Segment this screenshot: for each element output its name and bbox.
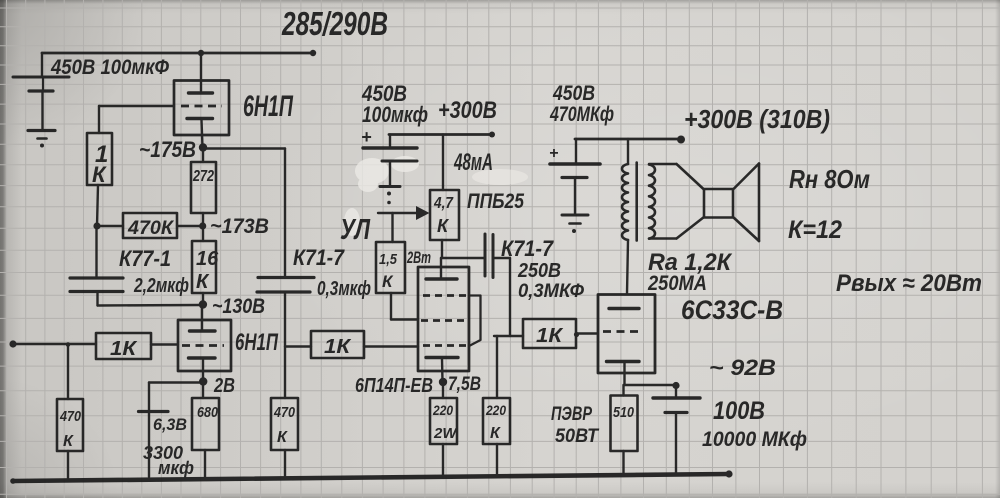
svg-text:2Вт: 2Вт	[406, 248, 431, 267]
node 285/290V supply label	[281, 5, 388, 42]
svg-text:К=12: К=12	[788, 216, 842, 244]
ground under second cap	[380, 187, 400, 205]
svg-text:0,3мкф: 0,3мкф	[317, 278, 371, 300]
resistor 220K grid leak	[483, 336, 510, 476]
wire rail to pot	[442, 135, 444, 191]
wire 470K to rail	[67, 451, 69, 479]
wire +300V rail 3	[575, 136, 685, 144]
wire ground bus	[10, 470, 732, 483]
capacitor K77-1 2.2uF	[70, 226, 201, 306]
svg-text:+300В (310В): +300В (310В)	[684, 104, 830, 134]
whiteout patches	[344, 156, 528, 236]
svg-text:450В 100мкФ: 450В 100мкФ	[50, 56, 169, 79]
wire 175V to coupling cap	[203, 149, 285, 278]
wire input	[9, 340, 96, 347]
svg-text:470: 470	[59, 408, 81, 425]
resistor 680	[192, 382, 219, 478]
svg-text:272: 272	[192, 168, 214, 185]
wire +300V rail 2	[389, 132, 495, 138]
wire 130V to V2 plate	[201, 305, 203, 331]
resistor 1.5K 2W	[376, 242, 431, 293]
resistor 510 PEVR 50W	[611, 385, 638, 473]
triode V1 6N1P (upper half)	[174, 81, 229, 136]
svg-text:50ВТ: 50ВТ	[555, 426, 599, 447]
resistor 1K input	[96, 333, 151, 360]
svg-text:К: К	[490, 425, 501, 442]
capacitor 450V 100uF second	[361, 81, 428, 186]
label K=12	[788, 216, 842, 244]
svg-text:К: К	[382, 272, 394, 291]
svg-text:1К: 1К	[324, 336, 352, 358]
svg-text:6Н1П: 6Н1П	[243, 90, 294, 123]
transformer secondary	[649, 165, 655, 239]
svg-text:ППБ25: ППБ25	[467, 190, 524, 213]
svg-text:470: 470	[273, 404, 295, 421]
wire V1 grid	[99, 106, 174, 133]
resistor 220 2W	[430, 382, 458, 476]
wire rail to transformer	[627, 139, 629, 164]
transformer primary	[622, 164, 628, 240]
node ~175V	[139, 137, 207, 162]
svg-text:~130В: ~130В	[212, 295, 265, 318]
triode V4 6C33C-B	[598, 295, 655, 374]
svg-text:1К: 1К	[536, 325, 564, 347]
wire top HT rail	[42, 50, 316, 56]
svg-text:ПЭВР: ПЭВР	[551, 404, 592, 425]
wire V4 cathode	[625, 363, 680, 389]
svg-text:К: К	[277, 429, 288, 446]
svg-text:2В: 2В	[213, 375, 235, 397]
resistor 1K grid V1	[87, 133, 112, 187]
capacitor 10000uF 100V	[653, 386, 807, 475]
svg-text:220: 220	[432, 402, 453, 418]
label Pout	[836, 270, 982, 297]
node ~173V	[199, 215, 269, 238]
speaker	[677, 164, 760, 242]
svg-text:285/290В: 285/290В	[281, 5, 388, 42]
label ~92V	[709, 355, 776, 380]
pentode V3 6P14P-EV	[418, 267, 469, 371]
svg-text:220: 220	[485, 402, 506, 418]
label 6C33C-B	[681, 295, 783, 325]
wire 1K to 470K	[93, 185, 100, 230]
svg-text:100мкф: 100мкф	[362, 102, 428, 127]
svg-text:7,5В: 7,5В	[448, 374, 481, 395]
wire rail riser to C1	[13, 53, 69, 77]
wire 1.5K to screen grid	[391, 293, 418, 320]
resistor 470K input	[57, 399, 83, 451]
svg-text:К: К	[92, 162, 107, 187]
wire pot to plate	[441, 240, 484, 279]
wire grid node V4	[494, 335, 523, 337]
label V2 6N1P	[235, 329, 279, 356]
potentiometer 4.7K PPB25	[430, 190, 459, 240]
svg-text:К: К	[63, 433, 74, 450]
svg-text:~ 92В: ~ 92В	[709, 355, 776, 380]
resistor 1K grid stopper V4	[523, 319, 598, 348]
resistor 272 SRPP	[191, 148, 216, 226]
label 250mA	[647, 272, 707, 295]
svg-text:Рвых ≈ 20Вт: Рвых ≈ 20Вт	[836, 270, 982, 297]
capacitor K71-7 0.3uF 250V	[485, 234, 584, 336]
svg-text:16: 16	[196, 248, 219, 270]
capacitor 3300uF 6.3V	[139, 412, 195, 479]
node ~130V	[199, 295, 265, 318]
resistor 470K feedback	[97, 213, 202, 239]
node 2V cathode	[199, 359, 235, 397]
wire primary to V4 plate	[627, 240, 628, 294]
capacitor 470uF 450V	[549, 82, 614, 215]
node 7.5V cathode	[439, 359, 481, 395]
svg-text:~173В: ~173В	[210, 215, 269, 238]
svg-text:+: +	[361, 127, 372, 147]
svg-text:К: К	[437, 216, 450, 236]
svg-text:Rн 8Ом: Rн 8Ом	[789, 164, 870, 194]
svg-text:470МКф: 470МКф	[549, 103, 614, 126]
svg-text:510: 510	[613, 404, 635, 421]
svg-text:К71-7: К71-7	[293, 245, 346, 270]
label 6P14P-EV	[355, 375, 433, 397]
svg-text:250МА: 250МА	[647, 272, 707, 295]
svg-text:мкф: мкф	[158, 458, 194, 478]
svg-text:10000 МКф: 10000 МКф	[702, 428, 807, 451]
label 48mA	[453, 149, 493, 176]
wire V1 plate to rail	[200, 53, 202, 91]
svg-text:4,7: 4,7	[433, 195, 454, 212]
wire cap to grid leak	[285, 292, 311, 398]
svg-text:0,3МКФ: 0,3МКФ	[518, 281, 584, 302]
resistor 1K grid stopper V3	[311, 331, 364, 358]
ground under 470uF	[562, 215, 588, 233]
wire V2 grid	[151, 343, 178, 345]
wire input to 470K	[67, 345, 69, 400]
triode V2 6N1P (lower half)	[178, 320, 231, 371]
svg-text:6С33С-В: 6С33С-В	[681, 295, 783, 325]
svg-text:6,3В: 6,3В	[153, 415, 187, 434]
svg-text:УЛ: УЛ	[340, 214, 371, 246]
svg-text:К77-1: К77-1	[119, 246, 171, 271]
svg-text:680: 680	[197, 404, 219, 421]
svg-text:+300В: +300В	[438, 97, 497, 124]
wire V1 cathode	[202, 120, 203, 147]
svg-text:1,5: 1,5	[379, 251, 398, 268]
wire secondary to speaker	[649, 164, 677, 239]
svg-text:470К: 470К	[127, 218, 174, 239]
svg-text:К: К	[196, 271, 210, 293]
capacitor C1 450V 100uF	[28, 56, 170, 131]
capacitor K71-7 0.3uF	[257, 245, 371, 300]
label Ra 1.2K	[648, 249, 733, 276]
resistor 470K grid leak V3	[271, 398, 298, 477]
wire 1K to 6P14P grid	[364, 345, 418, 347]
svg-text:48мА: 48мА	[453, 149, 493, 176]
wire cathode to C 3300uF	[149, 383, 203, 412]
svg-text:2W: 2W	[433, 425, 458, 442]
label UL	[340, 214, 371, 246]
label PEVR 50W	[551, 404, 599, 447]
svg-text:2,2мкф: 2,2мкф	[133, 275, 189, 297]
svg-text:6П14П-ЕВ: 6П14П-ЕВ	[355, 375, 433, 397]
svg-text:~175В: ~175В	[139, 137, 196, 162]
label PPB25	[467, 190, 524, 213]
svg-text:250В: 250В	[517, 260, 561, 282]
svg-text:6Н1П: 6Н1П	[235, 329, 279, 356]
transformer core	[635, 163, 638, 241]
svg-text:1К: 1К	[110, 338, 138, 360]
label Rn 8Ohm	[789, 164, 870, 194]
svg-text:+: +	[549, 145, 558, 162]
label V1 6N1P	[243, 90, 294, 123]
wiper arrow UL tap	[378, 206, 430, 242]
label +300V 310V	[684, 104, 830, 134]
svg-text:100В: 100В	[713, 397, 765, 425]
resistor 16K	[192, 226, 219, 304]
label +300V	[438, 97, 497, 124]
wire suppressor loop	[469, 296, 481, 346]
ground under C1	[38, 139, 47, 148]
svg-text:450В: 450В	[552, 82, 595, 105]
